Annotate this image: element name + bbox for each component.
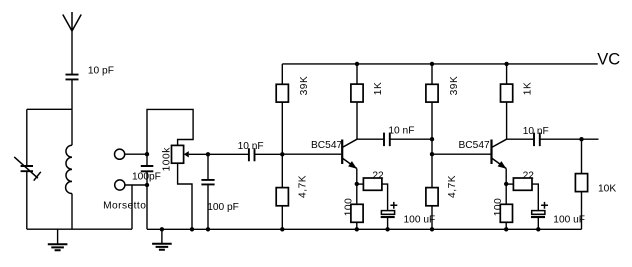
svg-text:4,7K: 4,7K [447, 175, 458, 198]
svg-text:10K: 10K [598, 184, 616, 195]
wire pot loop [147, 109, 193, 154]
svg-text:39K: 39K [299, 76, 310, 96]
svg-text:BC547: BC547 [459, 140, 490, 151]
capacitor C4 10 nF input [208, 148, 282, 161]
node wiper junction [206, 152, 210, 156]
svg-text:1K: 1K [373, 82, 384, 96]
variable capacitor CV [14, 157, 41, 181]
svg-text:1K: 1K [523, 82, 534, 96]
capacitor C2 100pF [141, 154, 154, 229]
svg-text:39K: 39K [449, 76, 460, 96]
resistor R10 100 stage2 [500, 184, 512, 229]
svg-text:4,7K: 4,7K [298, 175, 309, 198]
svg-text:100 uF: 100 uF [404, 214, 436, 225]
svg-text:10 nF: 10 nF [523, 126, 549, 137]
svg-text:22: 22 [372, 170, 384, 181]
resistor R12 10K [575, 139, 587, 229]
wire top terminal to node [125, 153, 147, 155]
wire bottom terminal riser to tank rail [131, 185, 133, 229]
node pot bottom on rail [190, 227, 194, 231]
node ground 2 [160, 227, 164, 231]
svg-text:100 pF: 100 pF [207, 202, 239, 213]
resistor R2 39K [276, 64, 288, 154]
resistor R6 22 [357, 178, 388, 211]
svg-text:Morsetto: Morsetto [103, 201, 146, 212]
transistor Q1 BC547 [282, 139, 357, 184]
svg-text:100 uF: 100 uF [553, 214, 585, 225]
node base 2 [430, 152, 434, 156]
wire output stub [582, 138, 599, 140]
svg-text:10 nF: 10 nF [238, 141, 264, 152]
node R4 top rail [355, 62, 359, 66]
resistor R8 4.7K stage2 [426, 188, 438, 230]
inductor L1 [66, 145, 72, 193]
svg-text:10 nF: 10 nF [388, 125, 414, 136]
node R7 top rail [430, 62, 434, 66]
capacitor C6 100 uF electrolytic [381, 202, 398, 229]
capacitor C3 100 pF [201, 154, 214, 229]
resistor R9 1K stage2 [501, 64, 513, 139]
capacitor C8 100 uF electrolytic stage2 [531, 202, 548, 229]
node C3 on rail [206, 227, 210, 231]
resistor R4 1K [351, 64, 363, 139]
svg-text:100pF: 100pF [132, 172, 161, 183]
wire left column upper [26, 109, 28, 166]
potentiometer R1 100k [172, 145, 209, 163]
svg-text:22: 22 [523, 170, 535, 181]
bottom rail (main ground) [147, 228, 582, 230]
ground 2 [152, 229, 172, 250]
capacitor C5 10 nF coupling [357, 133, 432, 147]
capacitor C1 10 pF [66, 75, 79, 80]
node coupling to base2 [430, 137, 434, 141]
wire left column lower [26, 171, 28, 229]
wire tank top [27, 108, 72, 110]
node C8 on rail [536, 227, 540, 231]
wire inductor bottom lead [71, 194, 73, 230]
svg-text:100: 100 [493, 198, 504, 217]
wire antenna cap to tank top [71, 79, 73, 109]
resistor R11 22 stage2 [506, 178, 538, 211]
capacitor C7 10 nF coupling stage2 [507, 133, 582, 147]
node bottom terminal junction [145, 183, 149, 187]
node R5 on rail [355, 227, 359, 231]
wire tank bottom rail [27, 228, 132, 230]
terminal J2 (Morsetto bottom) [115, 180, 125, 190]
node C6 on rail [385, 227, 389, 231]
transistor Q2 BC547 [432, 139, 507, 184]
antenna [63, 12, 81, 74]
svg-text:100: 100 [343, 198, 354, 217]
VC top rail [282, 63, 597, 65]
ground [48, 229, 68, 250]
wire bottom terminal to cap column [125, 184, 147, 186]
node emitter 2 [504, 182, 508, 186]
svg-text:10 pF: 10 pF [88, 66, 114, 77]
resistor R5 100 [351, 184, 363, 229]
node R3 on rail [280, 227, 284, 231]
node top terminal junction [145, 152, 149, 156]
resistor R7 39K stage2 [426, 64, 438, 188]
svg-text:100k: 100k [162, 147, 173, 172]
node R10 on rail [504, 227, 508, 231]
wire pot bottom [178, 163, 192, 229]
node R8 on rail [430, 227, 434, 231]
svg-text:BC547: BC547 [311, 140, 342, 151]
node emitter 1 [355, 182, 359, 186]
resistor R3 4.7K [276, 154, 288, 229]
wire inductor top lead [71, 109, 73, 145]
svg-text:VC: VC [597, 50, 620, 68]
node R9 top rail [504, 62, 508, 66]
terminal J1 (Morsetto top) [115, 149, 125, 159]
node base 1 [280, 152, 284, 156]
node output [579, 137, 583, 141]
